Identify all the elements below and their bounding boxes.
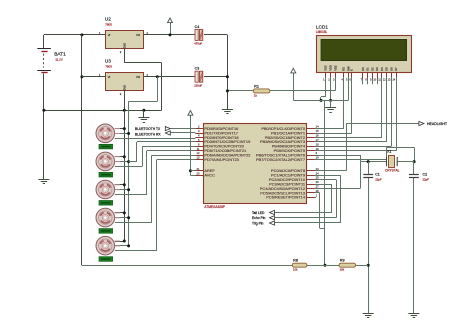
- wire bluetooth tx to MCU PD0: [170, 128, 195, 130]
- wire U3 output row to C3: [144, 76, 195, 78]
- wire motor M5 pin2 to bus B: [115, 245, 129, 247]
- vibration motor M2: [96, 152, 120, 171]
- node C1 R9 junction: [367, 264, 370, 267]
- svg-text:220uF: 220uF: [194, 83, 202, 87]
- vibration motor M3: [96, 180, 120, 199]
- svg-text:GND: GND: [122, 85, 126, 91]
- wire motor M3 signal to MCU: [115, 194, 147, 196]
- LCD screen: [321, 39, 407, 60]
- LCD pin labels: [324, 65, 399, 71]
- svg-text:D0: D0: [361, 67, 365, 71]
- svg-text:C1: C1: [375, 173, 380, 177]
- svg-text:21: 21: [197, 167, 200, 171]
- wire motor M2 pin1 to bus A: [115, 156, 125, 158]
- ground symbol C2: [408, 313, 419, 315]
- svg-text:10k: 10k: [340, 268, 345, 272]
- svg-text:26: 26: [316, 180, 319, 184]
- svg-text:10k: 10k: [293, 268, 298, 272]
- svg-text:D7: D7: [394, 67, 398, 71]
- wire LCD VDD to rail: [330, 77, 332, 100]
- ground symbol left rail: [138, 117, 149, 119]
- wire U3 GND stub down: [124, 91, 126, 111]
- svg-text:VDD: VDD: [329, 65, 333, 71]
- MCU left pin numbers: [197, 125, 201, 176]
- MCU right pin stubs: [306, 128, 315, 130]
- node R8 R9 divider junction: [324, 264, 327, 267]
- svg-text:7805: 7805: [105, 23, 112, 27]
- wire motor M1 signal to MCU: [115, 138, 196, 140]
- resistor R1: [253, 89, 270, 93]
- wire PC0 to HEADLIGHT: [315, 170, 347, 172]
- node U3 VO junction: [156, 75, 159, 78]
- svg-text:E: E: [350, 69, 354, 71]
- power +5V arrow LCD VDD: [291, 68, 296, 73]
- svg-text:BLUETOOTH RX: BLUETOOTH RX: [135, 132, 161, 136]
- wire motor M4 pin1 to bus A: [115, 212, 125, 214]
- power +5V arrow mid: [188, 111, 193, 116]
- wire LCD RW down to rail: [348, 77, 350, 100]
- svg-text:11.1V: 11.1V: [55, 57, 63, 61]
- svg-text:7805: 7805: [105, 65, 112, 69]
- svg-text:R1: R1: [254, 84, 259, 88]
- wire motor M3 pin1 to bus A: [115, 184, 125, 186]
- svg-text:R8: R8: [293, 259, 298, 263]
- wire PB2 to LCD D4: [315, 137, 382, 139]
- svg-text:X1: X1: [387, 149, 391, 153]
- wire PB3 to LCD D5: [315, 141, 387, 143]
- svg-text:HEADLIGHT: HEADLIGHT: [427, 122, 448, 126]
- svg-text:RW: RW: [346, 66, 350, 71]
- voltage regulator U2 7805: [106, 31, 144, 49]
- svg-text:C3: C3: [195, 67, 200, 71]
- vibration motor M4: [96, 208, 120, 227]
- wire U3 input row: [82, 76, 106, 78]
- svg-text:20: 20: [197, 171, 200, 175]
- resistor R9: [339, 263, 356, 267]
- wire +11V vertical bus to U3 and R8: [81, 35, 83, 265]
- wire motor M4 signal to MCU: [115, 222, 152, 224]
- svg-text:18: 18: [316, 142, 319, 146]
- svg-text:VEE: VEE: [333, 65, 337, 71]
- wire motor M2 pin2 to bus B: [115, 161, 129, 163]
- node ground stub junction: [142, 109, 145, 112]
- power +5V arrow U2 output: [168, 18, 173, 23]
- svg-text:D2: D2: [370, 67, 374, 71]
- ground symbol battery: [38, 179, 49, 181]
- wire LCD VSS to ground rail: [325, 77, 327, 97]
- wire PB0 to LCD RS: [315, 128, 344, 130]
- svg-text:Echo Pin: Echo Pin: [252, 216, 266, 220]
- label motor M1 green tag: [99, 144, 113, 149]
- svg-text:C2: C2: [423, 173, 428, 177]
- ground symbol C3/C4 column: [222, 109, 233, 111]
- svg-text:Tail LED: Tail LED: [252, 211, 265, 215]
- svg-text:PC6/RESET/PCINT14: PC6/RESET/PCINT14: [266, 195, 306, 200]
- wire PC1 to Trig Pin: [315, 175, 341, 177]
- node +5V C4 junction: [169, 33, 172, 36]
- wire R8 to junction: [307, 265, 325, 267]
- wire junction to R9: [325, 265, 339, 267]
- ground symbol C1: [363, 313, 374, 315]
- node C3/C4 ground column junction: [226, 75, 229, 78]
- MCU U1 ATMEGA328P body: [204, 124, 307, 204]
- MCU left pin names: [204, 126, 250, 178]
- battery BAT1: [37, 48, 51, 50]
- node battery ground rail junction: [42, 109, 45, 112]
- svg-text:27: 27: [316, 185, 319, 189]
- svg-text:RS: RS: [342, 67, 346, 71]
- node U3 VI junction: [80, 75, 83, 78]
- terminal HEADLIGHT: [419, 121, 424, 125]
- node U3 gnd rail junction: [123, 109, 126, 112]
- LCD LCD1 LM016L body: [317, 36, 412, 73]
- wire PB6 to crystal left: [315, 155, 362, 157]
- wire PB1 to LCD E: [315, 133, 352, 135]
- wire motor M5 pin1 to bus A: [115, 241, 125, 243]
- LCD pin open wire ends: [325, 79, 327, 85]
- svg-text:R9: R9: [340, 259, 345, 263]
- svg-text:12: 12: [197, 151, 200, 155]
- wire PC5 join ground vertical: [315, 192, 320, 194]
- svg-text:D5: D5: [385, 67, 389, 71]
- svg-text:VI: VI: [108, 33, 111, 37]
- wire PB7 to crystal right: [315, 159, 387, 161]
- svg-text:LM016L: LM016L: [316, 30, 328, 34]
- wire motor M4 pin2 to bus B: [115, 217, 129, 219]
- wire +5V to AREF/AVCC: [190, 116, 192, 175]
- wire motor M3 pin2 to bus B: [115, 189, 129, 191]
- svg-text:GND: GND: [122, 43, 126, 49]
- wire C4 right to ground column: [204, 34, 227, 36]
- wire bluetooth rx to MCU PD1: [170, 132, 195, 134]
- LCD pin stubs: [325, 72, 327, 78]
- svg-text:22pF: 22pF: [375, 177, 382, 181]
- vibration motor M1: [96, 124, 120, 143]
- svg-text:ATMEGA328P: ATMEGA328P: [204, 205, 225, 209]
- svg-text:D4: D4: [380, 67, 384, 71]
- svg-text:C4: C4: [195, 25, 200, 29]
- wire LCD ground rail: [293, 100, 348, 102]
- wire motor bus A: [124, 110, 126, 241]
- capacitor C2: [413, 162, 415, 174]
- MCU right pin numbers: [316, 125, 319, 198]
- wire U2 GND route: [124, 48, 126, 62]
- wire PB5 to LCD D7: [315, 150, 397, 152]
- label motor M2 green tag: [99, 172, 113, 177]
- svg-text:CRYSTAL: CRYSTAL: [385, 169, 400, 173]
- capacitor C1: [368, 162, 370, 174]
- wire bus B tap to MCU PD3: [129, 161, 137, 163]
- LCD pin numbers: [323, 78, 396, 82]
- wire motor M1 pin2 to bus B: [115, 133, 129, 135]
- label motor M5 green tag: [99, 257, 113, 262]
- svg-text:15: 15: [316, 129, 319, 133]
- vibration motor M5: [96, 236, 120, 255]
- svg-text:D3: D3: [375, 67, 379, 71]
- svg-text:AVCC: AVCC: [204, 173, 215, 178]
- wire motor M5 signal to MCU: [115, 250, 157, 252]
- ground symbol LCD: [330, 100, 332, 107]
- wire PC4 to crystal node: [315, 188, 361, 190]
- wire motor M2 signal to MCU: [115, 166, 142, 168]
- wire C3 right lead: [204, 76, 227, 78]
- svg-text:16: 16: [316, 134, 319, 138]
- wire PC6 stub lead: [315, 197, 317, 199]
- node crystal right C2: [413, 160, 416, 163]
- MCU left pin stubs: [195, 128, 204, 130]
- wire ground-rail long vertical to R8/R9: [324, 100, 326, 265]
- wire PB4 to LCD D6: [315, 146, 392, 148]
- svg-text:13: 13: [197, 156, 200, 160]
- voltage regulator U3 7805: [106, 73, 144, 91]
- wire battery negative down to ground: [43, 73, 45, 179]
- wire PC3 to Tail LED: [315, 184, 332, 186]
- svg-text:PB7/TOSC2/XTAL2/PCINT7: PB7/TOSC2/XTAL2/PCINT7: [256, 157, 305, 162]
- wire motor M1 pin1 to bus A: [115, 128, 125, 130]
- wire R1 to LCD VEE: [270, 90, 335, 92]
- node battery+/U3 branch: [80, 33, 83, 36]
- svg-text:BLUETOOTH TX: BLUETOOTH TX: [135, 127, 161, 131]
- node R1 tap on ground column: [226, 89, 229, 92]
- MCU right pin names: [256, 126, 306, 200]
- svg-text:VSS: VSS: [324, 65, 328, 71]
- svg-text:VI: VI: [108, 75, 111, 79]
- wire crystal right lead: [397, 161, 414, 163]
- label motor M4 green tag: [99, 229, 113, 234]
- wire +5V from U3 to motor bus B: [157, 77, 159, 102]
- node crystal left C1: [367, 160, 370, 163]
- capacitor C3 electrolytic: [195, 71, 198, 82]
- resistor R8: [292, 263, 307, 267]
- wire PC2 to Echo Pin: [315, 179, 337, 181]
- wire battery+ to R8: [82, 265, 292, 267]
- wire R1 left lead: [227, 90, 253, 92]
- svg-text:22pF: 22pF: [423, 177, 430, 181]
- wire R9 to C1 column: [356, 265, 369, 267]
- crystal X1: [386, 157, 388, 166]
- svg-text:D6: D6: [389, 67, 393, 71]
- wire ground stub: [143, 110, 145, 117]
- wire ground rail y110: [44, 110, 162, 112]
- wire +11V battery top rail: [44, 34, 195, 36]
- wire battery stem top: [43, 35, 45, 49]
- svg-text:24: 24: [316, 171, 319, 175]
- svg-text:Trig Pin: Trig Pin: [252, 222, 264, 226]
- label motor M3 green tag: [99, 201, 113, 206]
- svg-text:D1: D1: [366, 67, 370, 71]
- svg-text:470uF: 470uF: [194, 42, 202, 46]
- capacitor C4 electrolytic: [195, 29, 198, 40]
- svg-text:PD7/AIN1/PCINT23: PD7/AIN1/PCINT23: [204, 157, 238, 162]
